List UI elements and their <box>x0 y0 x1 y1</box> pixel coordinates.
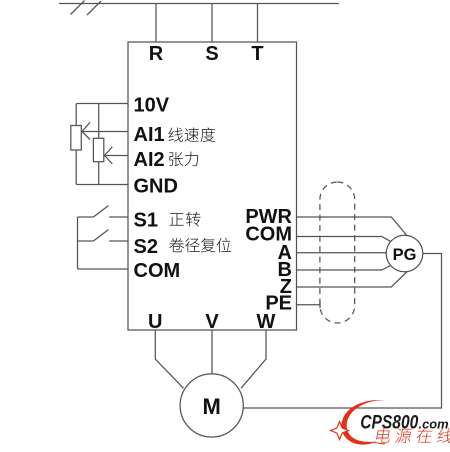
svg-text:CPS800: CPS800 <box>360 412 418 434</box>
wire: bus to R <box>155 4 157 43</box>
svg-text:GND: GND <box>134 175 178 197</box>
svg-text:10V: 10V <box>134 94 170 116</box>
wire: U to motor <box>155 330 183 388</box>
wire: PE to cable shield <box>297 304 321 306</box>
potentiometer R1 body <box>71 126 82 151</box>
svg-text:M: M <box>203 394 221 419</box>
wire: GND return from pots <box>76 184 128 186</box>
label 卷径复位 (roll diameter reset) <box>169 238 184 252</box>
svg-text:.com: .com <box>419 417 449 432</box>
svg-text:T: T <box>251 43 263 65</box>
svg-text:V: V <box>205 311 219 333</box>
wire: W to motor <box>241 330 266 388</box>
supply hatch mark 1 <box>71 1 85 15</box>
wire: switch common rail <box>77 217 79 269</box>
wire: B to PG <box>297 265 392 270</box>
wire: bus to S <box>211 4 213 43</box>
wire: V to motor <box>211 330 213 374</box>
wire: COM to PG <box>297 237 392 242</box>
svg-text:U: U <box>148 311 162 333</box>
wire: PWR to PG <box>297 217 408 236</box>
svg-text:R: R <box>149 43 164 65</box>
wire: three-phase supply bus <box>59 3 339 5</box>
supply hatch mark 2 <box>87 1 101 15</box>
encoder PG <box>386 235 423 272</box>
label 正转 (forward) <box>169 213 183 226</box>
wire: PG to motor feedback <box>243 254 441 409</box>
wire: pot R1 top lead <box>75 104 77 126</box>
switch S2 <box>78 230 129 242</box>
wire: 10V to potentiometer tops <box>76 103 128 105</box>
svg-text:AI1: AI1 <box>134 124 165 146</box>
wire: COM rail to inverter <box>78 268 129 270</box>
shielded cable (dashed stadium) <box>320 182 355 323</box>
wire: A to PG <box>297 252 387 254</box>
wiper of R1 to AI1 <box>82 122 128 139</box>
wire: Z to PG <box>297 272 408 288</box>
switch S1 <box>78 206 129 218</box>
wire: pot R2 top lead <box>98 104 100 139</box>
svg-text:S: S <box>205 43 218 65</box>
label 线速度 (line speed) <box>168 127 182 141</box>
svg-text:PG: PG <box>393 246 417 264</box>
motor M <box>180 374 243 437</box>
watermark logo swoosh <box>341 400 392 445</box>
label 张力 (tension) <box>169 152 183 166</box>
svg-text:S1: S1 <box>134 209 158 231</box>
watermark star <box>331 422 349 440</box>
svg-text:AI2: AI2 <box>134 149 165 171</box>
wiper of R2 to AI2 <box>105 147 129 164</box>
watermark text 电源在线 <box>376 428 392 443</box>
potentiometer R2 body <box>93 138 103 161</box>
wire: pot R1 bottom lead <box>75 150 77 185</box>
svg-text:COM: COM <box>134 260 181 282</box>
wire: bus to T <box>257 4 259 43</box>
inverter box U1 <box>128 42 297 330</box>
watermark logo tail <box>373 442 386 445</box>
wire: pot R2 bottom lead <box>98 162 100 185</box>
svg-text:S2: S2 <box>134 236 158 258</box>
svg-text:W: W <box>257 311 276 333</box>
